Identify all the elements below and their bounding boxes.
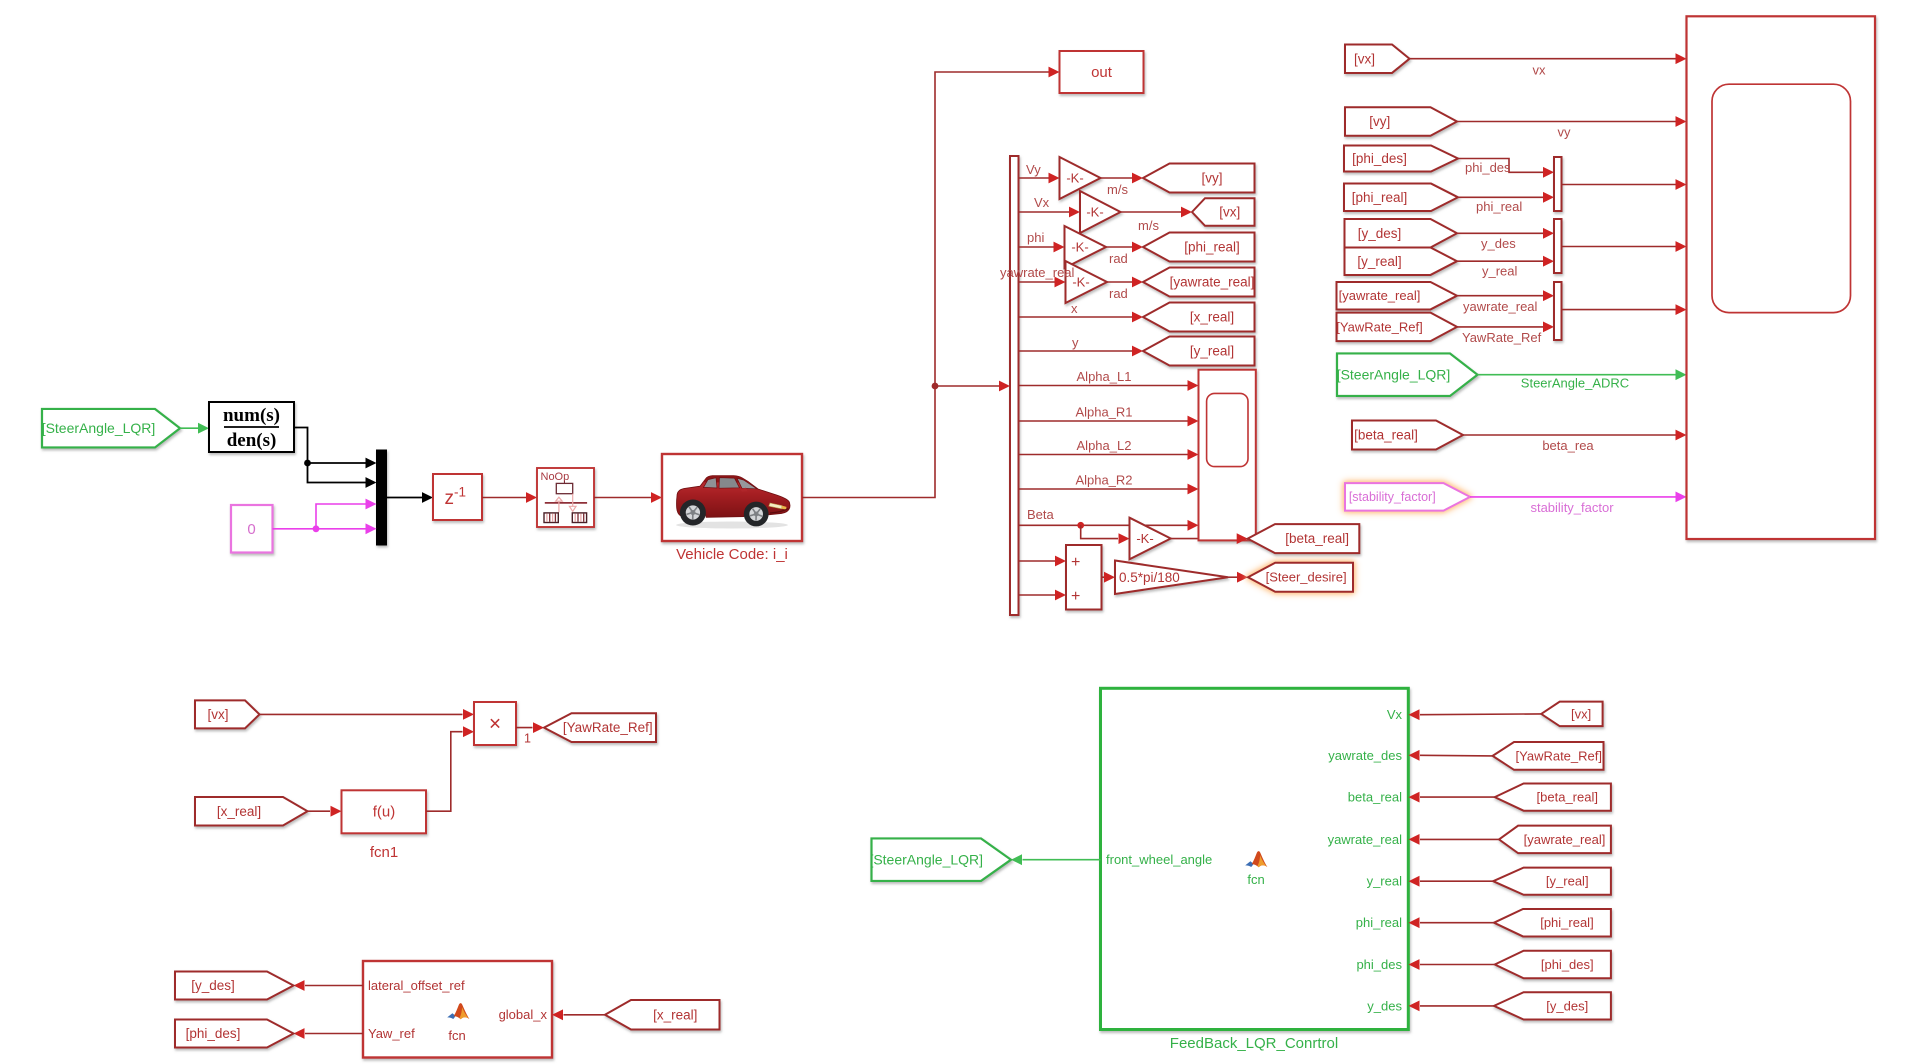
svg-text:vx: vx: [1533, 63, 1547, 78]
svg-text:phi_real: phi_real: [1356, 915, 1402, 930]
svg-text:phi_des: phi_des: [1356, 957, 1402, 972]
svg-text:+: +: [1071, 554, 1080, 571]
svg-text:[y_real]: [y_real]: [1357, 254, 1401, 269]
svg-text:m/s: m/s: [1107, 182, 1128, 197]
svg-text:[phi_real]: [phi_real]: [1352, 190, 1408, 205]
svg-text:Beta: Beta: [1027, 507, 1055, 522]
svg-text:y_real: y_real: [1482, 264, 1518, 279]
svg-text:Alpha_R2: Alpha_R2: [1075, 473, 1132, 488]
svg-text:phi_des: phi_des: [1465, 160, 1511, 175]
svg-text:[beta_real]: [beta_real]: [1285, 531, 1349, 546]
svg-text:yawrate_real: yawrate_real: [1328, 832, 1403, 847]
svg-text:[vy]: [vy]: [1201, 171, 1222, 186]
svg-text:Alpha_L1: Alpha_L1: [1077, 369, 1132, 384]
svg-text:stability_factor: stability_factor: [1530, 500, 1614, 515]
svg-text:den(s): den(s): [227, 430, 277, 451]
svg-text:SteerAngle_ADRC: SteerAngle_ADRC: [1521, 376, 1629, 391]
svg-text:0: 0: [247, 521, 255, 538]
svg-text:[phi_des]: [phi_des]: [1352, 151, 1407, 166]
svg-text:vy: vy: [1558, 125, 1572, 140]
svg-text:FeedBack_LQR_Conrtrol: FeedBack_LQR_Conrtrol: [1170, 1035, 1338, 1052]
svg-text:phi_real: phi_real: [1476, 199, 1522, 214]
svg-text:y_des: y_des: [1367, 998, 1402, 1013]
svg-text:out: out: [1091, 64, 1113, 81]
svg-text:[YawRate_Ref]: [YawRate_Ref]: [1336, 319, 1422, 334]
svg-text:Alpha_L2: Alpha_L2: [1077, 438, 1132, 453]
svg-text:Alpha_R1: Alpha_R1: [1075, 405, 1132, 420]
svg-text:[yawrate_real]: [yawrate_real]: [1339, 288, 1421, 303]
svg-text:-K-: -K-: [1071, 240, 1088, 255]
svg-text:[phi_real]: [phi_real]: [1184, 240, 1240, 255]
svg-text:y_des: y_des: [1481, 236, 1516, 251]
svg-text:lateral_offset_ref: lateral_offset_ref: [368, 978, 465, 993]
svg-text:rad: rad: [1109, 286, 1128, 301]
svg-text:front_wheel_angle: front_wheel_angle: [1106, 852, 1212, 867]
svg-text:[y_des]: [y_des]: [191, 978, 235, 993]
svg-text:beta_real: beta_real: [1348, 790, 1402, 805]
svg-text:[phi_real]: [phi_real]: [1540, 915, 1593, 930]
svg-text:[yawrate_real]: [yawrate_real]: [1170, 275, 1255, 290]
svg-text:[y_des]: [y_des]: [1546, 998, 1588, 1013]
svg-text:-K-: -K-: [1072, 275, 1089, 290]
svg-text:0.5*pi/180: 0.5*pi/180: [1119, 570, 1180, 585]
svg-text:m/s: m/s: [1138, 218, 1159, 233]
svg-text:Vx: Vx: [1034, 195, 1050, 210]
svg-text:num(s): num(s): [223, 405, 280, 426]
svg-text:y_real: y_real: [1367, 874, 1403, 889]
svg-text:[vx]: [vx]: [207, 707, 228, 722]
svg-text:[vx]: [vx]: [1571, 706, 1591, 721]
svg-text:-K-: -K-: [1086, 205, 1103, 220]
svg-text:[y_real]: [y_real]: [1190, 344, 1234, 359]
svg-text:-K-: -K-: [1136, 531, 1153, 546]
svg-text:fcn: fcn: [448, 1028, 465, 1043]
svg-text:yawrate_real: yawrate_real: [1000, 265, 1075, 280]
svg-text:Vehicle Code: i_i: Vehicle Code: i_i: [676, 546, 788, 563]
svg-text:[SteerAngle_LQR]: [SteerAngle_LQR]: [1337, 366, 1451, 382]
svg-text:[SteerAngle_LQR]: [SteerAngle_LQR]: [869, 851, 983, 867]
svg-text:global_x: global_x: [499, 1007, 548, 1022]
svg-text:[vx]: [vx]: [1354, 51, 1375, 66]
svg-text:Vx: Vx: [1387, 707, 1403, 722]
svg-text:[phi_des]: [phi_des]: [186, 1026, 241, 1041]
svg-text:f(u): f(u): [373, 804, 396, 821]
svg-text:[SteerAngle_LQR]: [SteerAngle_LQR]: [42, 420, 156, 436]
svg-text:yawrate_des: yawrate_des: [1328, 748, 1402, 763]
svg-text:×: ×: [489, 713, 501, 736]
svg-text:[phi_des]: [phi_des]: [1541, 957, 1594, 972]
svg-text:beta_rea: beta_rea: [1542, 438, 1594, 453]
svg-text:x: x: [1071, 301, 1078, 316]
svg-text:+: +: [1071, 588, 1080, 605]
svg-text:yawrate_real: yawrate_real: [1463, 299, 1538, 314]
svg-text:[y_real]: [y_real]: [1546, 874, 1589, 889]
svg-text:[y_des]: [y_des]: [1358, 226, 1402, 241]
svg-text:fcn: fcn: [1247, 872, 1264, 887]
svg-text:[YawRate_Ref]: [YawRate_Ref]: [1516, 748, 1602, 763]
svg-text:[beta_real]: [beta_real]: [1537, 790, 1598, 805]
svg-text:[Steer_desire]: [Steer_desire]: [1266, 570, 1347, 585]
svg-text:[YawRate_Ref]: [YawRate_Ref]: [563, 720, 653, 735]
svg-text:rad: rad: [1109, 251, 1128, 266]
svg-text:1: 1: [524, 732, 531, 746]
svg-text:phi: phi: [1027, 230, 1044, 245]
svg-text:[vy]: [vy]: [1369, 114, 1390, 129]
svg-text:-K-: -K-: [1066, 171, 1083, 186]
svg-text:[beta_real]: [beta_real]: [1354, 428, 1418, 443]
svg-text:[x_real]: [x_real]: [653, 1007, 697, 1022]
svg-text:Yaw_ref: Yaw_ref: [368, 1026, 415, 1041]
svg-text:[yawrate_real]: [yawrate_real]: [1524, 832, 1606, 847]
svg-text:[x_real]: [x_real]: [217, 804, 261, 819]
svg-text:[vx]: [vx]: [1219, 205, 1240, 220]
svg-text:fcn1: fcn1: [370, 844, 398, 861]
svg-text:Vy: Vy: [1026, 162, 1041, 177]
svg-text:[x_real]: [x_real]: [1190, 310, 1234, 325]
svg-text:YawRate_Ref: YawRate_Ref: [1462, 330, 1542, 345]
svg-text:y: y: [1072, 335, 1079, 350]
svg-text:[stability_factor]: [stability_factor]: [1349, 490, 1436, 504]
